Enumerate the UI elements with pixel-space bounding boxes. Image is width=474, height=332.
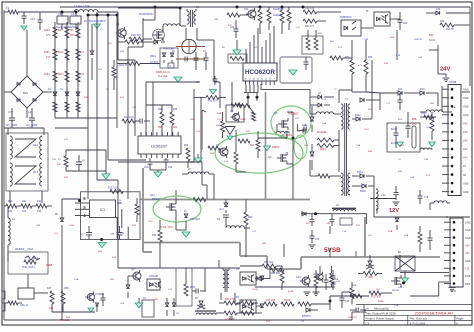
svg-text:7N15A(O: 7N15A(O xyxy=(190,218,200,221)
svg-text:10: 10 xyxy=(269,79,271,81)
svg-text:47A: 47A xyxy=(80,73,85,76)
svg-text:WHPK2__2TA2: WHPK2__2TA2 xyxy=(15,247,34,251)
svg-text:B01: B01 xyxy=(23,91,28,95)
svg-text:24V: 24V xyxy=(463,131,468,134)
svg-text:D31A: D31A xyxy=(355,114,361,117)
svg-text:GND: GND xyxy=(463,105,469,108)
svg-text:16: 16 xyxy=(244,79,246,81)
svg-text:47A: 47A xyxy=(112,256,116,259)
svg-text:CON: CON xyxy=(450,289,456,293)
svg-text:C48: C48 xyxy=(302,125,307,127)
svg-text:GND: GND xyxy=(465,229,471,232)
svg-text:C3A: C3A xyxy=(356,144,361,147)
svg-text:RxxRxEE: RxxRxEE xyxy=(317,132,327,134)
svg-text:62E: 62E xyxy=(57,164,61,166)
svg-text:R3B: R3B xyxy=(412,119,417,121)
svg-text:R25: R25 xyxy=(173,109,178,111)
svg-text:SNIBT46O: SNIBT46O xyxy=(340,16,352,19)
svg-text:R12E: R12E xyxy=(288,291,294,293)
svg-text:C?8: C?8 xyxy=(424,197,429,199)
svg-text:V: V xyxy=(170,64,172,68)
svg-text:KM6TW: KM6TW xyxy=(414,39,423,41)
svg-text:GND: GND xyxy=(465,221,471,224)
svg-text:PI: PI xyxy=(366,10,369,13)
svg-text:+12: +12 xyxy=(465,267,470,270)
svg-text:S14: S14 xyxy=(22,210,27,213)
svg-text:3O1: 3O1 xyxy=(173,127,178,129)
svg-text:GND: GND xyxy=(463,114,469,117)
svg-text:R3E 1O2: R3E 1O2 xyxy=(348,317,358,319)
svg-text:51K4: 51K4 xyxy=(70,35,76,37)
svg-text:D2A: D2A xyxy=(404,234,409,237)
svg-text:D33: D33 xyxy=(152,235,157,237)
svg-text:C4E: C4E xyxy=(424,159,429,161)
svg-text:Q1O: Q1O xyxy=(296,276,301,279)
svg-text:13: 13 xyxy=(257,79,259,81)
svg-text:IN O6. 1OO: IN O6. 1OO xyxy=(160,226,173,229)
svg-text:9: 9 xyxy=(274,79,275,81)
svg-text:24V: 24V xyxy=(463,148,468,151)
svg-text:47O: 47O xyxy=(246,131,250,133)
svg-text:ALL 1N5: ALL 1N5 xyxy=(158,75,168,78)
svg-text:+5V: +5V xyxy=(465,244,470,247)
svg-text:D1O: D1O xyxy=(420,89,425,91)
svg-text:12V: 12V xyxy=(389,208,399,214)
svg-text:P1/B: P1/B xyxy=(465,275,471,278)
svg-text:IC1: IC1 xyxy=(100,208,106,212)
svg-text:47O: 47O xyxy=(358,65,362,67)
svg-text:R2E: R2E xyxy=(262,243,267,245)
svg-text:1N4TH: 1N4TH xyxy=(446,28,454,31)
svg-text:GND: GND xyxy=(463,97,469,100)
svg-text:<b: <b xyxy=(366,306,370,310)
svg-text:4E6O8: 4E6O8 xyxy=(392,290,400,292)
svg-text:D3E: D3E xyxy=(410,177,415,179)
svg-text:47O: 47O xyxy=(368,235,372,237)
svg-text:R4E5O: R4E5O xyxy=(272,147,280,149)
svg-text:24V: 24V xyxy=(463,140,468,143)
svg-text:HL3: HL3 xyxy=(33,170,39,174)
svg-text:C6E: C6E xyxy=(120,303,125,305)
svg-text:C4O: C4O xyxy=(144,167,149,169)
svg-text:PC8P13N5O: PC8P13N5O xyxy=(139,13,154,16)
svg-text:24V: 24V xyxy=(440,67,450,73)
svg-text:GND: GND xyxy=(463,88,469,91)
svg-text:47A: 47A xyxy=(46,56,51,59)
svg-text:C13: C13 xyxy=(345,301,350,303)
svg-text:R1A?: R1A? xyxy=(421,112,427,115)
svg-text:R44E: R44E xyxy=(378,301,384,303)
svg-text:R5A: R5A xyxy=(352,284,357,287)
svg-text:Q3?: Q3? xyxy=(131,269,136,271)
svg-text:L4E: L4E xyxy=(452,107,456,109)
svg-text:D14: D14 xyxy=(398,89,403,91)
svg-text:C5E: C5E xyxy=(36,225,41,227)
svg-text:R36A: R36A xyxy=(240,118,246,121)
svg-text:R2A: R2A xyxy=(190,118,195,121)
svg-text:Title: Poland PLM-3238: Title: Poland PLM-3238 xyxy=(366,312,396,316)
svg-text:GND: GND xyxy=(463,182,469,185)
svg-text:Q14: Q14 xyxy=(150,194,155,197)
svg-text:+5V: +5V xyxy=(465,252,470,255)
svg-text:47O: 47O xyxy=(266,321,270,323)
svg-text:R151: R151 xyxy=(44,52,50,54)
svg-text:HL2: HL2 xyxy=(33,143,39,147)
svg-text:C43: C43 xyxy=(168,167,173,169)
svg-text:D31B: D31B xyxy=(360,191,366,193)
svg-text:2A?7: 2A?7 xyxy=(219,208,225,211)
svg-text:L 8: L 8 xyxy=(366,322,370,326)
svg-text:11: 11 xyxy=(265,79,267,81)
svg-text:HCO62OR: HCO62OR xyxy=(245,69,275,76)
svg-text:4? 3O4: 4? 3O4 xyxy=(365,277,373,279)
svg-text:R34 3O1: R34 3O1 xyxy=(264,261,274,264)
svg-text:AH__1024: AH__1024 xyxy=(26,124,38,127)
svg-text:R61A: R61A xyxy=(150,55,156,58)
svg-text:CX1: CX1 xyxy=(30,17,36,21)
svg-text:ZVTP2O1O2OBPH: ZVTP2O1O2OBPH xyxy=(84,20,106,23)
svg-text:C8E: C8E xyxy=(214,19,219,21)
svg-text:OTB: OTB xyxy=(465,283,470,286)
svg-text:RO9: RO9 xyxy=(190,287,195,289)
svg-text:C9: C9 xyxy=(71,12,75,16)
svg-text:S14: S14 xyxy=(8,210,13,213)
svg-text:C?6: C?6 xyxy=(315,239,320,241)
svg-text:47O: 47O xyxy=(120,97,124,99)
svg-text:C26: C26 xyxy=(403,23,408,25)
svg-text:R39: R39 xyxy=(64,287,69,290)
svg-text:R4B: R4B xyxy=(217,113,222,115)
svg-text:C4B: C4B xyxy=(110,234,115,236)
svg-text:BZX97A: BZX97A xyxy=(302,315,311,318)
svg-text:3OO1: 3OO1 xyxy=(429,39,436,42)
svg-text:R47: R47 xyxy=(250,145,255,147)
svg-text:1OO2: 1OO2 xyxy=(252,289,259,291)
svg-text:24V: 24V xyxy=(463,123,468,126)
svg-text:R62: R62 xyxy=(429,34,434,37)
svg-text:R43 100: R43 100 xyxy=(60,319,70,322)
svg-text:EC16: EC16 xyxy=(391,142,398,145)
svg-text:R29: R29 xyxy=(184,145,189,147)
svg-text:3A6B: 3A6B xyxy=(46,263,53,267)
svg-text:OO6+8B: OO6+8B xyxy=(149,276,158,278)
svg-text:GND: GND xyxy=(465,260,471,263)
svg-text:C4O: C4O xyxy=(80,234,85,236)
svg-text:C2E: C2E xyxy=(418,57,423,59)
svg-text:R1E1: R1E1 xyxy=(44,74,50,76)
svg-text:R41 471: R41 471 xyxy=(305,25,315,28)
svg-text:5VSB: 5VSB xyxy=(324,247,341,254)
svg-text:AH__1024: AH__1024 xyxy=(6,124,18,127)
svg-text:C16: C16 xyxy=(230,27,235,29)
svg-text:1OO: 1OO xyxy=(217,119,222,121)
svg-text:100: 100 xyxy=(49,307,54,310)
svg-text:Q11: Q11 xyxy=(244,8,249,11)
svg-text:R1E: R1E xyxy=(84,97,89,99)
svg-text:R21B-R2-(1): R21B-R2-(1) xyxy=(156,71,170,74)
svg-text:R6E: R6E xyxy=(368,151,373,153)
svg-text:Microcad(c): Microcad(c) xyxy=(374,306,389,310)
svg-text:R12: R12 xyxy=(22,200,27,203)
svg-text:S14: S14 xyxy=(37,210,42,213)
svg-text:R2O 47O: R2O 47O xyxy=(131,34,141,37)
svg-text:L1O: L1O xyxy=(381,194,386,197)
svg-text:D1E: D1E xyxy=(396,55,401,57)
svg-text:9TA_H: 9TA_H xyxy=(20,303,28,307)
svg-text:R4E: R4E xyxy=(210,153,215,155)
svg-text:C3E: C3E xyxy=(336,281,341,283)
svg-text:EC1A: EC1A xyxy=(391,128,398,131)
svg-text:R1E: R1E xyxy=(398,171,403,173)
svg-text:Page:: Page: xyxy=(456,317,464,321)
svg-text:R11: R11 xyxy=(37,200,42,203)
svg-text:R1? 1O2: R1? 1O2 xyxy=(266,300,276,302)
svg-text:R6? 1O2: R6? 1O2 xyxy=(225,298,235,301)
svg-text:C4E: C4E xyxy=(326,223,331,225)
svg-text:CON8: CON8 xyxy=(449,80,457,84)
svg-text:GND: GND xyxy=(463,191,469,194)
svg-text:D4E: D4E xyxy=(398,287,403,289)
svg-text:R1?7 1O2: R1?7 1O2 xyxy=(108,188,119,190)
svg-text:R37: R37 xyxy=(47,287,52,290)
svg-text:R43A: R43A xyxy=(320,148,326,151)
svg-text:1OO2: 1OO2 xyxy=(284,300,291,302)
svg-text:C1E: C1E xyxy=(342,231,347,233)
svg-text:12: 12 xyxy=(261,79,263,81)
svg-text:51K4: 51K4 xyxy=(58,52,64,54)
svg-text:GND: GND xyxy=(465,237,471,240)
svg-text:R22 41L: R22 41L xyxy=(305,7,315,10)
svg-text:R7O 1O2: R7O 1O2 xyxy=(371,297,381,299)
svg-text:C1A: C1A xyxy=(74,278,79,281)
svg-text:C4A: C4A xyxy=(322,122,327,125)
svg-text:200-P00-MLT996A-AH: 200-P00-MLT996A-AH xyxy=(415,312,454,316)
svg-text:R1E2: R1E2 xyxy=(44,30,50,32)
svg-text:C7E: C7E xyxy=(120,233,125,235)
svg-text:C3E: C3E xyxy=(364,39,369,41)
svg-text:24V: 24V xyxy=(463,157,468,160)
svg-text:L2 AH_1024: L2 AH_1024 xyxy=(74,4,90,8)
svg-text:LE56247: LE56247 xyxy=(151,144,168,149)
svg-text:1OO: 1OO xyxy=(148,221,153,223)
svg-text:14: 14 xyxy=(253,79,255,81)
svg-text:1OO: 1OO xyxy=(364,129,369,131)
svg-text:D31A: D31A xyxy=(357,171,363,174)
svg-text:File: Root.sch: File: Root.sch xyxy=(410,317,428,321)
svg-text:R6O: R6O xyxy=(248,217,253,219)
svg-text:CY2: CY2 xyxy=(8,110,14,114)
svg-text:R?1 1OO: R?1 1OO xyxy=(208,101,218,103)
svg-text:C24: C24 xyxy=(436,9,441,11)
svg-text:R13: R13 xyxy=(8,200,13,203)
svg-text:8 (?) 03.2003: 8 (?) 03.2003 xyxy=(410,322,426,326)
svg-text:TUR_R6A1: TUR_R6A1 xyxy=(22,266,35,269)
svg-text:R68 3O1: R68 3O1 xyxy=(271,273,281,275)
svg-text:R14EOO: R14EOO xyxy=(273,15,283,17)
svg-text:R4A: R4A xyxy=(390,36,395,39)
svg-text:15: 15 xyxy=(249,79,251,81)
svg-text:51K4: 51K4 xyxy=(58,74,64,76)
svg-text:Project: Power Supply: Project: Power Supply xyxy=(366,317,395,321)
svg-text:R3A: R3A xyxy=(388,230,393,233)
svg-text:R14 1O3: R14 1O3 xyxy=(124,116,134,119)
svg-text:R33: R33 xyxy=(368,57,373,59)
svg-text:R43: R43 xyxy=(440,21,445,23)
